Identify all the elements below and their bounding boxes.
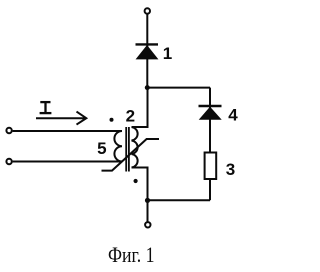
polarity dot secondary bottom	[134, 179, 138, 183]
wire top horizontal	[147, 87, 210, 89]
wire bottom horizontal	[147, 199, 210, 201]
svg-text:2: 2	[126, 107, 135, 126]
diode 1 cathode bar	[136, 43, 159, 45]
diagonal saturation stroke	[102, 139, 160, 171]
label I current	[40, 102, 52, 113]
terminal input top-left	[6, 128, 11, 133]
polarity dot secondary top	[110, 118, 114, 122]
primary winding 5	[114, 131, 122, 161]
terminal output bottom	[145, 222, 150, 227]
terminal input bottom-left	[6, 159, 11, 164]
wire primary top lead	[13, 130, 122, 132]
current arrow	[36, 112, 86, 125]
wire secondary bottom lead	[132, 168, 148, 223]
transformer core	[126, 127, 129, 172]
secondary winding 2	[132, 127, 138, 168]
wire secondary top lead	[132, 88, 148, 127]
svg-text:3: 3	[226, 160, 235, 179]
wire right vertical	[209, 88, 211, 201]
resistor 3	[205, 153, 217, 180]
wire primary bottom lead	[13, 161, 122, 163]
diode 1 triangle	[137, 46, 158, 59]
svg-text:1: 1	[163, 44, 172, 63]
wire diode 1 branch	[146, 14, 148, 88]
junction node top	[145, 85, 150, 90]
terminal output top	[145, 8, 150, 13]
svg-text:4: 4	[228, 106, 238, 125]
svg-text:5: 5	[97, 139, 106, 158]
diode 4 cathode bar	[199, 105, 222, 107]
svg-text:Фиг. 1: Фиг. 1	[108, 242, 155, 267]
diode 4 triangle	[200, 107, 221, 119]
junction node bottom	[145, 198, 150, 203]
